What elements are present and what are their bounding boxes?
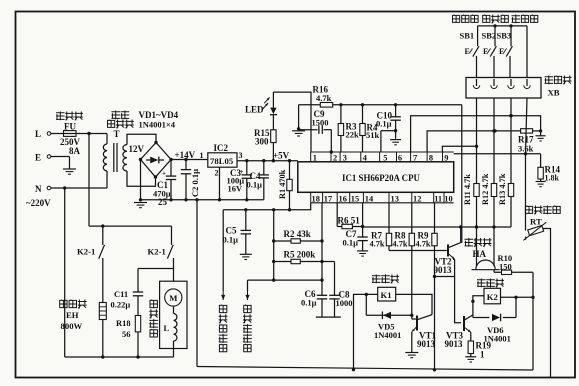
svg-text:1.8k: 1.8k (545, 174, 560, 183)
svg-text:22k: 22k (346, 129, 360, 139)
wire fuse to node, L feeder (76, 133, 107, 135)
svg-text:2: 2 (333, 154, 337, 163)
svg-text:0.1μ: 0.1μ (223, 235, 239, 245)
wire key column 1 (476, 98, 478, 146)
svg-text:E: E (499, 47, 504, 56)
wire buzzer net (363, 226, 511, 228)
svg-text:0.1μ: 0.1μ (343, 238, 359, 248)
svg-text:t: t (525, 235, 527, 242)
wire key column 4 to RT (526, 98, 528, 154)
svg-text:1N4001×4: 1N4001×4 (139, 120, 176, 130)
CPU IC1 SH66P20A box (298, 162, 454, 193)
transformer T labels (111, 111, 129, 120)
capacitor C6 0.1u (321, 280, 323, 295)
wire CPU pin9 net (442, 146, 476, 152)
wire CPU pin12 to VT1 base (411, 203, 413, 319)
ground symbol C5 (240, 253, 252, 255)
wire N (51, 187, 107, 189)
wire oscillator rail (299, 104, 462, 106)
resistor R12 4.7k (491, 184, 496, 197)
relay K2 (484, 288, 501, 304)
svg-text:VD1~VD4: VD1~VD4 (139, 110, 179, 120)
wire RT to bottom right (543, 229, 551, 378)
wire ground rail down to bottom common rail (196, 200, 198, 367)
svg-text:K2: K2 (487, 292, 498, 302)
wire bridge negative to ground rail (140, 160, 142, 200)
svg-text:4.7k: 4.7k (416, 240, 431, 249)
wire key column 2 (493, 98, 495, 131)
wire key column 3 (510, 98, 512, 116)
svg-text:18: 18 (312, 195, 320, 204)
svg-text:+: + (240, 168, 244, 176)
svg-text:12V: 12V (129, 144, 145, 154)
thermistor RT (525, 206, 560, 215)
wire bottom return (heater/motor) (65, 356, 174, 358)
svg-text:0.1μ: 0.1μ (301, 298, 317, 308)
svg-text:0.1μ: 0.1μ (247, 180, 263, 190)
svg-text:16: 16 (339, 195, 347, 204)
svg-text:M: M (169, 293, 177, 303)
wire foam probe column (222, 210, 224, 291)
svg-text:+: + (162, 170, 166, 178)
svg-text:+5V: +5V (273, 151, 290, 161)
CPU bottom pin row (311, 202, 454, 204)
svg-text:HA: HA (473, 249, 487, 259)
svg-text:R2 43k: R2 43k (284, 229, 311, 239)
svg-text:4.7k: 4.7k (370, 240, 385, 249)
fuse FU 250V 8A (64, 131, 77, 137)
svg-text:XB: XB (548, 88, 560, 98)
transformer T core (113, 143, 115, 172)
resistor R17 3.6k (521, 129, 533, 133)
svg-text:12: 12 (413, 195, 421, 204)
resistor R8 4.7k (409, 233, 414, 246)
wire key common to connector (526, 26, 528, 78)
wire secondary bottom to bridge (127, 171, 156, 186)
resistor R11 4.7k (474, 184, 479, 197)
CPU top pin row (311, 151, 454, 153)
resistor R3 22k (340, 105, 342, 152)
svg-text:1: 1 (200, 151, 204, 160)
svg-text:13: 13 (391, 195, 399, 204)
svg-text:EH: EH (66, 310, 79, 320)
wire R2/R5 left column (273, 210, 275, 280)
svg-text:3: 3 (239, 151, 243, 160)
svg-text:C2 0.1μ: C2 0.1μ (190, 169, 200, 197)
wire bottom common rail (197, 367, 533, 371)
svg-text:IC2: IC2 (214, 143, 229, 153)
wire CPU pin11 column to common rail (434, 203, 436, 370)
svg-text:L: L (164, 323, 170, 333)
svg-text:T: T (114, 129, 120, 139)
LED indicator (270, 114, 277, 116)
svg-text:K1: K1 (381, 290, 392, 300)
wire L column down to K2-1 feeder (88, 134, 90, 227)
resistor R15 300 (272, 143, 274, 161)
capacitor C7 0.1u (362, 227, 364, 238)
svg-text:SB1: SB1 (460, 30, 475, 40)
capacitor C10 0.1u (395, 105, 397, 117)
wire K2 left to VT3 collector (473, 296, 484, 318)
resistor R5 200k (274, 261, 335, 263)
resistor R1 470k (289, 161, 291, 180)
ground symbol main rail (134, 202, 147, 204)
wire VT2 emitter to VT3 base (455, 259, 461, 322)
capacitor C11 0.22u (138, 268, 174, 270)
svg-text:1N4001: 1N4001 (374, 330, 401, 340)
svg-text:1N4001: 1N4001 (484, 334, 511, 344)
ground symbol R19 (465, 356, 476, 358)
resistor R16 4.7k (320, 103, 332, 108)
wire CPU pin14 to junction (362, 203, 364, 227)
label water probe 接水位探头 (243, 305, 252, 352)
wire K2 right (501, 296, 534, 298)
svg-text:10: 10 (444, 195, 452, 204)
svg-text:~220V: ~220V (26, 198, 51, 208)
svg-text:51k: 51k (366, 130, 380, 140)
wire L to fuse (51, 133, 64, 135)
svg-text:800W: 800W (61, 321, 83, 331)
relay K1 (378, 287, 396, 301)
wire C10 to CPU pin5 (381, 130, 396, 132)
svg-text:N: N (35, 184, 42, 194)
svg-text:150: 150 (499, 261, 512, 271)
capacitor C2 0.1u (185, 160, 187, 170)
svg-text:56: 56 (122, 329, 131, 339)
capacitor C5 0.1u (245, 210, 247, 231)
svg-text:11: 11 (434, 195, 442, 204)
svg-text:15: 15 (351, 195, 359, 204)
svg-text:4.7k: 4.7k (316, 93, 332, 103)
wire CPU pin18 net (223, 203, 311, 210)
svg-text:E: E (465, 47, 470, 56)
capacitor C9 1500 (299, 129, 318, 131)
capacitor C8 1000 (334, 262, 336, 296)
svg-text:2: 2 (215, 169, 219, 178)
svg-text:16V: 16V (228, 184, 244, 194)
svg-text:8: 8 (429, 154, 433, 163)
svg-text:C11: C11 (114, 289, 128, 299)
transistor VT1 9013 (416, 316, 418, 331)
transformer T secondary winding (123, 145, 127, 171)
wire IC2 pin2 to ground rail (219, 167, 221, 200)
svg-text:RT: RT (530, 217, 542, 227)
diode VD5 1N4001 (365, 294, 367, 315)
diode VD6 1N4001 (473, 317, 490, 319)
resistor R18 56 (135, 316, 140, 332)
wire water probe link (248, 279, 323, 281)
wire LED to CPU pin1 (273, 92, 311, 152)
wire N column down to bottom (64, 188, 66, 357)
resistor R19 1 (470, 332, 472, 341)
ground symbol R17 (540, 131, 542, 136)
common bar C6 (316, 316, 329, 318)
wire CPU pin7 net (411, 116, 541, 152)
svg-text:9013: 9013 (434, 265, 453, 275)
resistor R7 4.7k (386, 233, 391, 246)
label foam probe 接浆沫探头 (219, 305, 228, 352)
resistor R9 4.7k (432, 233, 437, 246)
ground rail (141, 199, 264, 201)
svg-text:R1 470k: R1 470k (278, 169, 287, 199)
svg-text:25: 25 (158, 197, 168, 207)
svg-text:8A: 8A (69, 146, 81, 156)
wire CPU pin16 to R6 (336, 203, 338, 227)
wire CPU pin8 net (427, 131, 520, 152)
connector XB box (466, 78, 541, 99)
svg-text:1: 1 (313, 154, 317, 163)
svg-text:E: E (483, 47, 488, 56)
resistor R4 51k (362, 105, 364, 152)
wire +14V (171, 159, 208, 161)
svg-text:3: 3 (343, 154, 347, 163)
svg-text:R12 4.7k: R12 4.7k (481, 173, 490, 205)
label 继电器 K1 (372, 275, 399, 284)
svg-text:4.7k: 4.7k (393, 240, 408, 249)
wire +5V rail (237, 160, 298, 162)
svg-text:R5 200k: R5 200k (284, 250, 316, 260)
resistor R13 4.7k (508, 184, 513, 197)
svg-text:14: 14 (365, 195, 374, 204)
bridge rectifier VD1-VD4 (141, 143, 172, 178)
CPU top pin dividers (310, 152, 312, 162)
svg-text:E: E (35, 153, 41, 163)
svg-text:LED: LED (245, 105, 264, 115)
ground symbol VT1 emitter (405, 352, 418, 354)
ground symbol C7 (357, 250, 368, 252)
ground symbol C10 (390, 139, 401, 141)
svg-text:SB3: SB3 (497, 30, 512, 40)
wire K1 left to common rail (354, 294, 380, 369)
common bar C8 (328, 316, 341, 318)
wire secondary top to bridge (127, 134, 156, 144)
svg-text:R6 51: R6 51 (338, 216, 361, 226)
resistor R14 1.8k (540, 154, 542, 168)
svg-text:FU: FU (64, 122, 76, 132)
ground symbol R14 (536, 181, 546, 183)
svg-text:IC1 SH66P20A CPU: IC1 SH66P20A CPU (342, 173, 420, 183)
capacitor C3 100u 16V (246, 161, 248, 175)
svg-text:R13 4.7k: R13 4.7k (498, 173, 507, 205)
svg-text:R11 4.7k: R11 4.7k (463, 174, 472, 205)
svg-text:300: 300 (255, 137, 269, 147)
svg-text:0.1μ: 0.1μ (376, 119, 392, 129)
buzzer HA (465, 238, 492, 247)
wire oscillator rail drop to buzzer net (461, 105, 463, 243)
svg-text:6: 6 (398, 154, 402, 163)
svg-text:SB2: SB2 (482, 30, 497, 40)
svg-text:17: 17 (324, 195, 332, 204)
resistor R2 43k (274, 240, 322, 242)
svg-text:0.22μ: 0.22μ (111, 300, 131, 310)
svg-text:78L05: 78L05 (210, 156, 234, 166)
svg-text:9: 9 (444, 154, 448, 163)
wire key common (478, 25, 527, 27)
svg-text:R18: R18 (116, 318, 131, 328)
svg-text:9013: 9013 (417, 339, 436, 349)
svg-text:L: L (35, 129, 41, 139)
wire R10 to K2 right and common rail (532, 272, 534, 370)
transistor VT2 9013 (447, 245, 449, 257)
wire CPU pin13 to VT2 base (388, 203, 390, 251)
wire water probe column (247, 280, 249, 291)
svg-text:1: 1 (480, 350, 485, 360)
ground symbol C9/R16 (298, 105, 300, 130)
svg-text:5: 5 (383, 154, 387, 163)
resistor R10 150 (493, 270, 495, 273)
motor M 打浆电机 (160, 281, 187, 348)
svg-text:1500: 1500 (312, 118, 329, 128)
connector XB contacts (476, 79, 478, 86)
transformer T primary winding (103, 144, 107, 171)
svg-text:K2-1: K2-1 (77, 247, 95, 257)
svg-text:7: 7 (413, 154, 417, 163)
resistor R6 51 (337, 226, 362, 228)
capacitor C4 0.1u (263, 161, 265, 175)
transistor VT3 9013 (463, 316, 465, 331)
label 继电器 K2 (477, 279, 504, 288)
capacitor C1 470u 25V (170, 160, 172, 177)
wire K1 right to VT1 collector (396, 294, 432, 314)
svg-text:1000: 1000 (336, 298, 353, 308)
wire CPU pin17 column (321, 203, 323, 280)
svg-text:9013: 9013 (445, 339, 464, 349)
wire pin row to R14 net (454, 153, 541, 155)
CPU bottom pin dividers (310, 192, 312, 203)
label keys 加热键 打浆键 启动键 (452, 15, 478, 23)
svg-text:K2-1: K2-1 (148, 247, 166, 257)
heater EH 800W (99, 303, 106, 320)
